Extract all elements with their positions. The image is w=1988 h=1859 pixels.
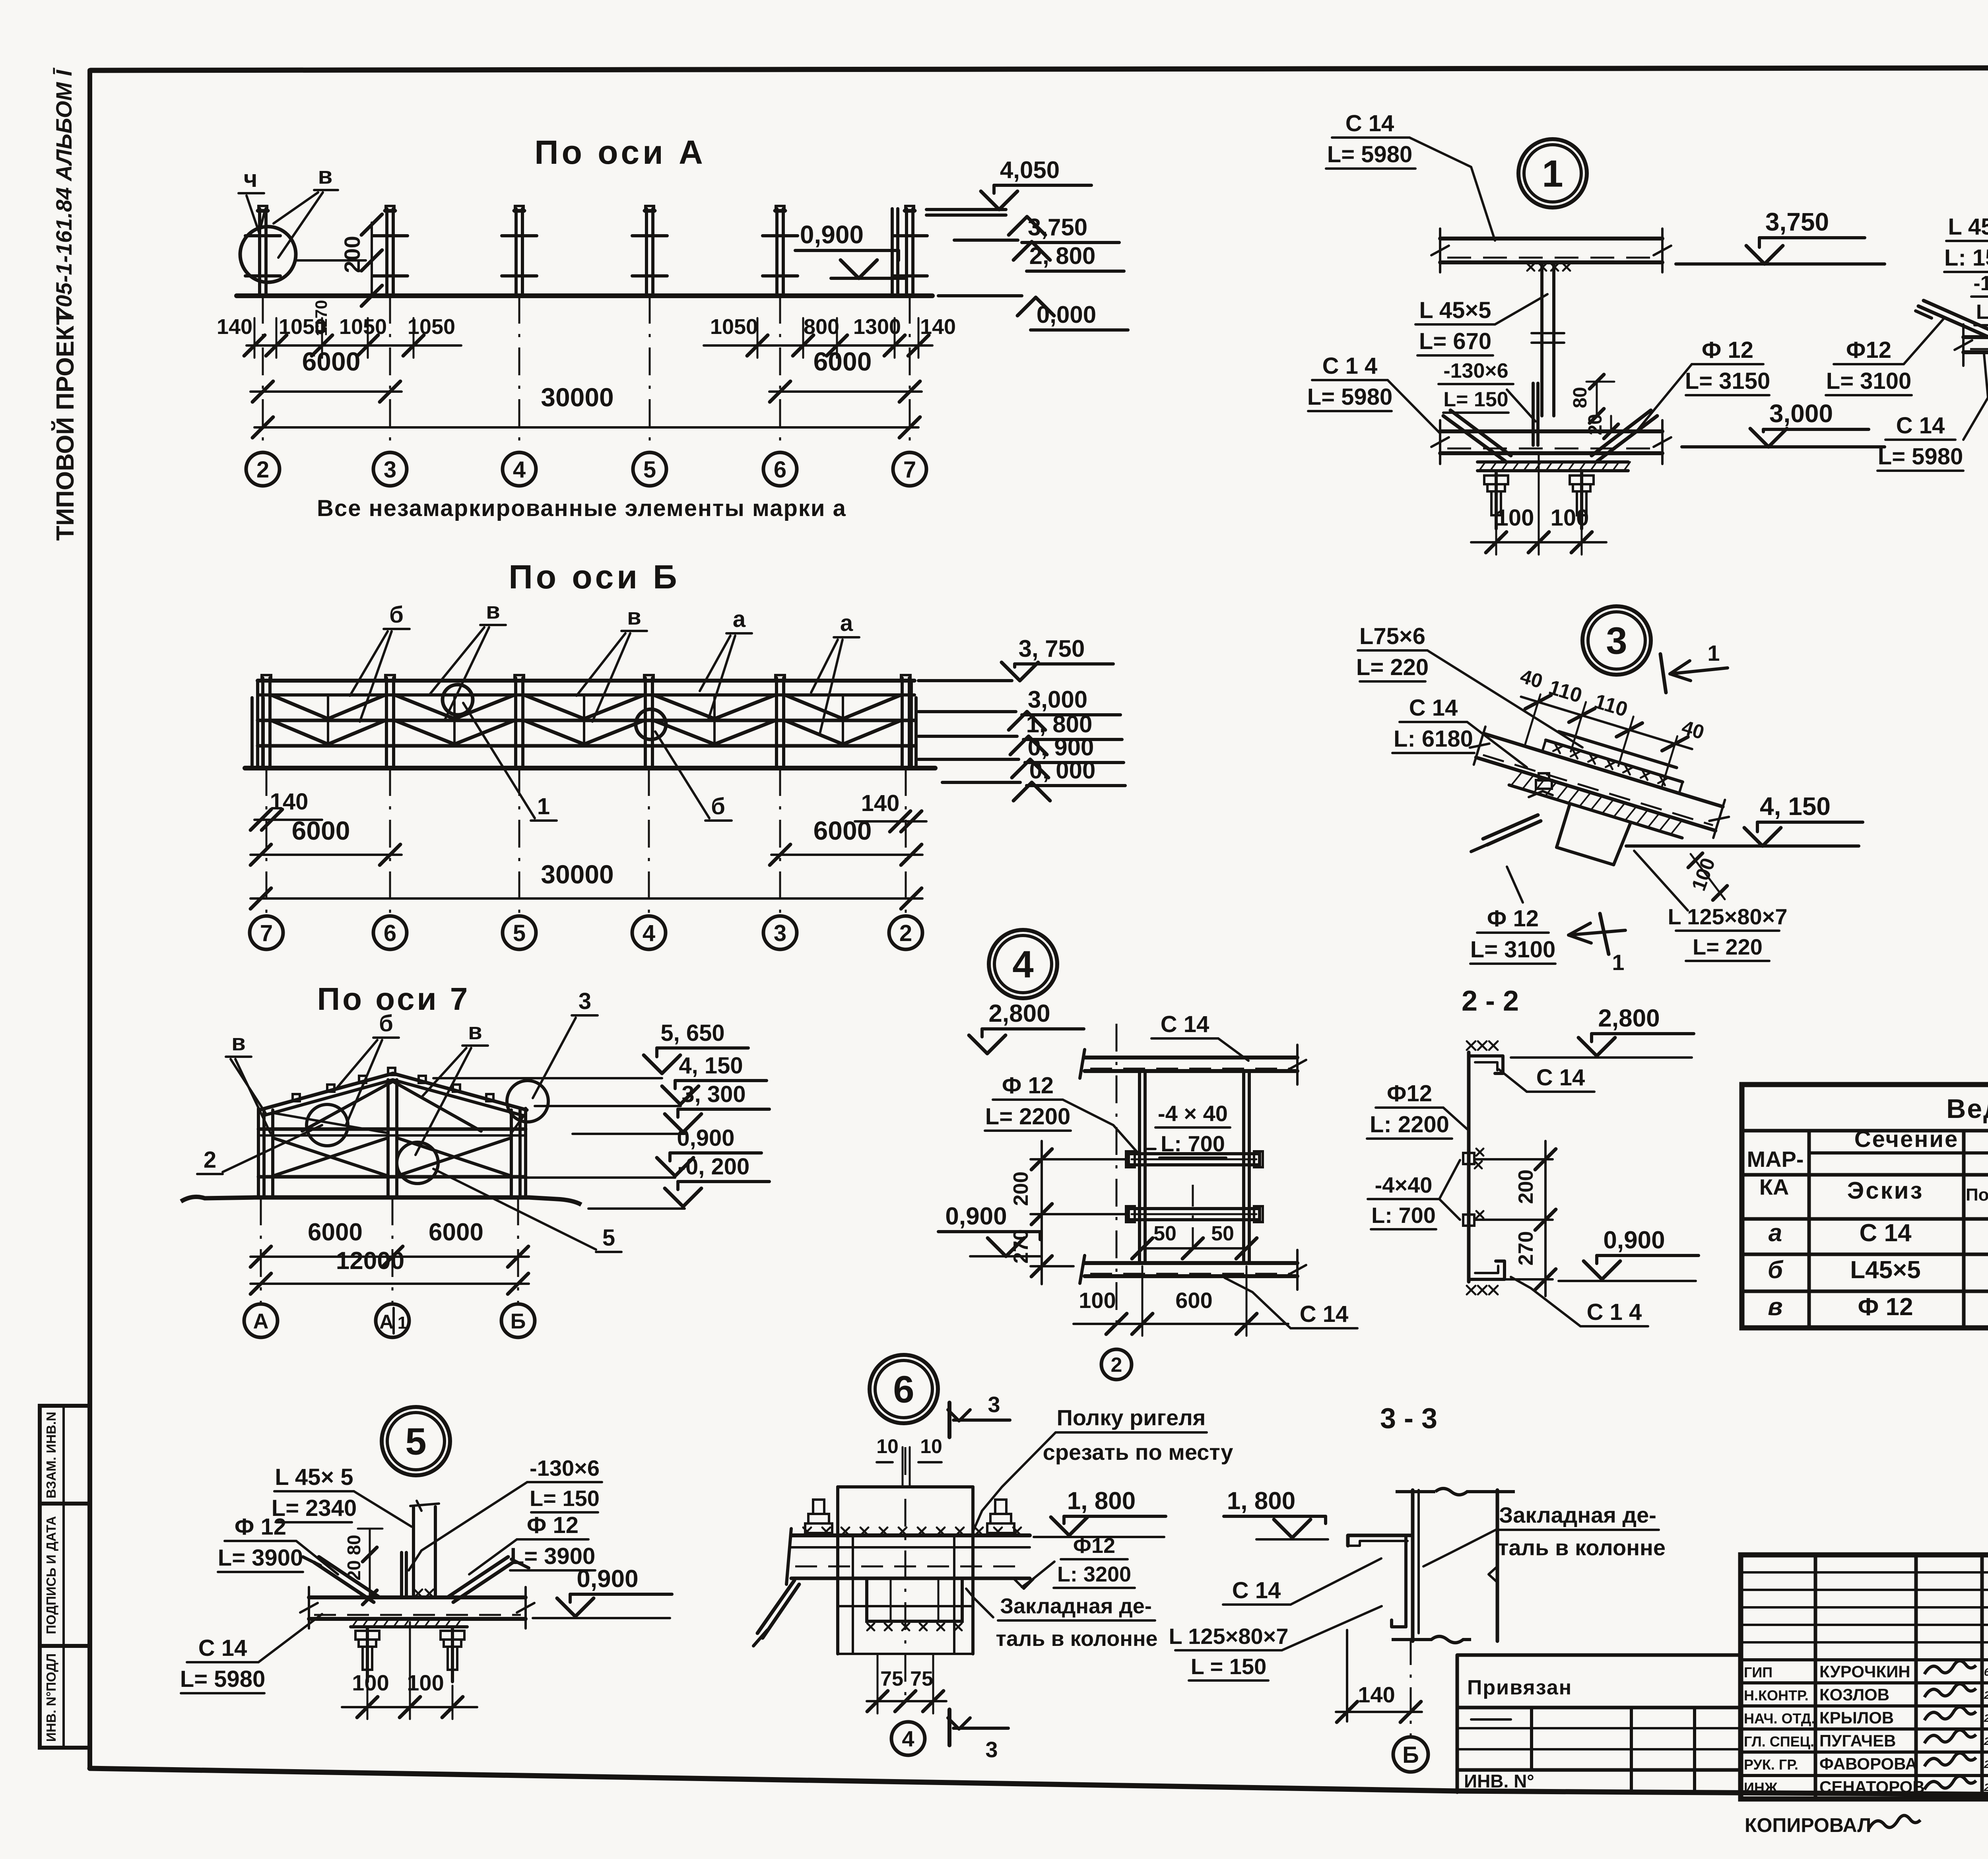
view 7 eave tie beam — [258, 1127, 526, 1131]
svg-text:L: 700: L: 700 — [1371, 1203, 1436, 1228]
svg-text:1050: 1050 — [339, 315, 387, 339]
svg-text:ПУГАЧЕВ: ПУГАЧЕВ — [1819, 1731, 1896, 1750]
svg-text:ГЛ. СПЕЦ.: ГЛ. СПЕЦ. — [1744, 1733, 1814, 1750]
svg-text:в: в — [318, 162, 333, 189]
svg-text:Полку ригеля: Полку ригеля — [1057, 1405, 1206, 1430]
svg-text:4, 150: 4, 150 — [1760, 792, 1831, 821]
svg-text:L75×6: L75×6 — [1359, 623, 1425, 649]
svg-text:С 1 4: С 1 4 — [1322, 353, 1378, 379]
view B post axis 3 — [775, 678, 778, 768]
svg-text:2: 2 — [204, 1147, 216, 1173]
view 7 purlin tabs — [293, 1094, 300, 1101]
svg-text:Ф 12: Ф 12 — [1002, 1073, 1054, 1098]
svg-text:270: 270 — [1514, 1231, 1538, 1266]
svg-text:140: 140 — [270, 789, 309, 815]
svg-text:С 14: С 14 — [1345, 111, 1394, 136]
svg-text:1, 800: 1, 800 — [1026, 711, 1093, 737]
svg-text:100: 100 — [407, 1670, 444, 1695]
svg-text:4, 150: 4, 150 — [679, 1053, 743, 1079]
svg-text:L: 2200: L: 2200 — [1370, 1112, 1449, 1137]
detail 2 brace rod left — [1918, 306, 1988, 358]
svg-text:3,000: 3,000 — [1028, 686, 1087, 713]
detail 6 section flag 3 top — [947, 1403, 951, 1437]
svg-text:5: 5 — [405, 1420, 426, 1463]
svg-text:б: б — [711, 794, 725, 819]
svg-text:Ведомость элементов: Ведомость элементов — [1946, 1094, 1988, 1124]
svg-text:20: 20 — [344, 1560, 364, 1580]
detail 4 axis centerline — [1116, 1024, 1118, 1324]
svg-text:4: 4 — [513, 457, 526, 483]
svg-text:-4×40: -4×40 — [1375, 1172, 1433, 1197]
view A fachwerk column axis 3 — [385, 209, 388, 296]
svg-text:С 14: С 14 — [1860, 1219, 1912, 1247]
svg-text:200: 200 — [340, 236, 365, 273]
svg-text:Ф12: Ф12 — [1073, 1534, 1115, 1558]
svg-text:80: 80 — [1570, 387, 1591, 408]
svg-text:Закладная де-: Закладная де- — [1499, 1502, 1656, 1527]
svg-text:0, 900: 0, 900 — [1028, 734, 1094, 761]
svg-text:2: 2 — [899, 920, 912, 946]
view B post axis 6 — [385, 678, 388, 768]
view B axis circles 7-2 — [250, 916, 283, 949]
svg-text:ГИП: ГИП — [1744, 1664, 1773, 1680]
svg-text:800: 800 — [804, 315, 839, 339]
svg-text:срезать по месту: срезать по месту — [1043, 1440, 1233, 1465]
svg-text:ч: ч — [244, 165, 258, 192]
detail 3 section flag 1 bottom — [1600, 914, 1609, 954]
view A level 4,050 — [926, 208, 1006, 211]
svg-text:а: а — [840, 610, 853, 636]
svg-text:28.2.84: 28.2.84 — [1984, 1689, 1988, 1701]
svg-text:Б: Б — [511, 1309, 526, 1333]
view A fachwerk column axis 6 — [775, 209, 779, 296]
svg-text:в: в — [231, 1030, 246, 1056]
svg-text:С 14: С 14 — [198, 1635, 247, 1661]
svg-text:100: 100 — [1551, 505, 1589, 531]
svg-text:50: 50 — [1211, 1222, 1234, 1245]
svg-text:-130×6: -130×6 — [1443, 359, 1508, 382]
svg-text:L 45×5: L 45×5 — [1948, 214, 1988, 240]
svg-text:L= 670: L= 670 — [1419, 328, 1491, 354]
svg-text:L= 3100: L= 3100 — [1826, 368, 1911, 394]
svg-text:Н.КОНТР.: Н.КОНТР. — [1744, 1687, 1809, 1704]
svg-text:2,800: 2,800 — [988, 1000, 1050, 1027]
detail 4 dim 200 270 — [1031, 1158, 1128, 1160]
svg-text:6000: 6000 — [302, 347, 361, 376]
svg-text:L= 150: L= 150 — [1443, 388, 1508, 411]
svg-text:L 45×5: L 45×5 — [1419, 297, 1491, 323]
svg-text:270: 270 — [1010, 1229, 1033, 1264]
svg-text:0, 000: 0, 000 — [1029, 757, 1096, 784]
svg-text:6000: 6000 — [292, 816, 350, 845]
svg-text:в: в — [486, 598, 500, 624]
detail 6 column box — [836, 1487, 839, 1654]
view B dim 6000 right — [771, 854, 922, 856]
view B ground line — [245, 766, 935, 770]
svg-text:С 14: С 14 — [1300, 1301, 1349, 1327]
detail 4 tie plates -4x40 — [1128, 1154, 1260, 1165]
svg-text:Сечение: Сечение — [1854, 1126, 1959, 1152]
view 7 brace diagonals — [273, 1138, 388, 1176]
view B dim 6000 left — [250, 854, 402, 856]
svg-text:30000: 30000 — [541, 860, 614, 889]
svg-text:7: 7 — [903, 457, 916, 483]
view 7 lower tie beam — [258, 1175, 526, 1179]
view B web diagonals — [271, 695, 328, 719]
view B lower chord — [258, 744, 914, 748]
view B dim 30000 — [250, 897, 922, 900]
svg-text:-130×6: -130×6 — [1973, 272, 1988, 295]
view 7 left column — [262, 1110, 266, 1197]
svg-text:3: 3 — [988, 1392, 1000, 1417]
svg-text:80: 80 — [344, 1535, 364, 1555]
section 2-2 bottom channel — [1469, 1261, 1505, 1279]
detail 1 brace rods — [1443, 416, 1505, 461]
svg-text:Ф 12: Ф 12 — [1702, 337, 1753, 363]
section 2-2 dim 200 270 — [1475, 1158, 1553, 1160]
detail 4 bottom beam C14 — [1085, 1261, 1297, 1265]
svg-text:3, 300: 3, 300 — [681, 1081, 745, 1107]
svg-text:6: 6 — [893, 1368, 914, 1411]
detail 3 inclined purlin assembly — [1449, 708, 1738, 893]
detail 5 anchor bolts — [366, 1628, 369, 1682]
detail 6 embedded plate — [867, 1578, 962, 1621]
view A dim 6000 left — [250, 390, 402, 393]
svg-text:Закладная де-: Закладная де- — [1000, 1594, 1152, 1618]
svg-text:а: а — [733, 606, 746, 632]
svg-text:0,900: 0,900 — [677, 1125, 734, 1151]
svg-text:3,750: 3,750 — [1765, 208, 1829, 236]
svg-text:L: 1500: L: 1500 — [1944, 245, 1988, 271]
svg-text:L= 3150: L= 3150 — [1685, 368, 1770, 394]
svg-text:L: 3200: L: 3200 — [1057, 1562, 1131, 1586]
sheet frame bottom border — [90, 1768, 1988, 1798]
svg-text:3,000: 3,000 — [1769, 399, 1833, 428]
detail 1 anchor bolts — [1495, 472, 1498, 529]
svg-text:3: 3 — [1606, 620, 1627, 662]
svg-text:Ф 12: Ф 12 — [235, 1514, 286, 1540]
svg-text:1050: 1050 — [710, 315, 758, 339]
svg-text:КА: КА — [1759, 1174, 1789, 1199]
section 2-2 gusset squares — [1463, 1153, 1474, 1164]
svg-text:140: 140 — [920, 315, 956, 339]
view 7 detail balloons on frame — [307, 1104, 348, 1146]
view 7 dim 6000 6000 — [250, 1256, 529, 1258]
svg-text:L 45× 5: L 45× 5 — [275, 1464, 353, 1490]
detail 1 level 3,000 — [1682, 445, 1885, 448]
svg-text:А: А — [379, 1311, 394, 1333]
svg-text:L= 5980: L= 5980 — [1307, 384, 1392, 410]
detail 6 bolts above beam — [805, 1523, 832, 1533]
svg-text:24.2.84: 24.2.84 — [1984, 1781, 1988, 1793]
svg-text:НАЧ. ОТД.: НАЧ. ОТД. — [1744, 1710, 1815, 1727]
svg-text:А: А — [253, 1309, 269, 1333]
svg-text:По оси А: По оси А — [534, 134, 706, 171]
view B top chord — [258, 679, 914, 683]
svg-text:2: 2 — [256, 457, 269, 483]
view 7 right column — [510, 1110, 513, 1197]
detail 4 axis circle 2 — [1101, 1349, 1132, 1380]
svg-text:100: 100 — [352, 1670, 389, 1695]
svg-text:С 14: С 14 — [1409, 695, 1458, 721]
view A detail balloon on column 2 — [240, 227, 296, 282]
svg-text:30000: 30000 — [541, 382, 614, 412]
view A ground line — [237, 293, 932, 298]
svg-text:б: б — [1768, 1256, 1784, 1284]
detail 3 rotated dims 40 110 110 40 — [1502, 665, 1707, 793]
svg-text:10: 10 — [876, 1435, 899, 1457]
view B post axis 5 — [514, 678, 517, 768]
svg-text:1, 800: 1, 800 — [1067, 1487, 1136, 1515]
svg-text:б: б — [379, 1011, 393, 1036]
svg-text:таль в колонне: таль в колонне — [1498, 1535, 1666, 1560]
view 7 dim 12000 — [250, 1283, 529, 1285]
svg-text:L= 5980: L= 5980 — [1327, 142, 1412, 167]
svg-text:а: а — [1769, 1219, 1782, 1247]
svg-text:5: 5 — [643, 457, 656, 483]
svg-text:МАР-: МАР- — [1747, 1147, 1804, 1172]
svg-text:С 14: С 14 — [1161, 1011, 1209, 1037]
detail 6 axis circle 4 — [891, 1722, 925, 1755]
section 2-2 column line — [1467, 1052, 1471, 1282]
detail balloon 4 — [989, 930, 1057, 998]
svg-text:L= 5980: L= 5980 — [180, 1666, 265, 1692]
view A axis extension lines — [262, 296, 264, 452]
svg-text:1: 1 — [537, 794, 550, 819]
svg-text:Ф12: Ф12 — [1387, 1081, 1432, 1106]
privyazan table — [1457, 1655, 1741, 1792]
svg-text:3: 3 — [774, 920, 786, 946]
svg-text:1, 800: 1, 800 — [1227, 1487, 1295, 1515]
svg-text:3: 3 — [384, 457, 396, 483]
view A dim 30000 — [254, 426, 918, 429]
svg-text:КОПИРОВАЛ: КОПИРОВАЛ — [1745, 1814, 1871, 1836]
vedomost table frame — [1742, 1085, 1988, 1328]
svg-text:Эскиз: Эскиз — [1847, 1177, 1924, 1204]
svg-text:5: 5 — [602, 1225, 615, 1251]
detail balloon 6 — [870, 1355, 938, 1423]
svg-text:С 1 4: С 1 4 — [1587, 1299, 1642, 1325]
svg-text:С 14: С 14 — [1232, 1578, 1281, 1603]
svg-text:L45×5: L45×5 — [1850, 1256, 1921, 1284]
detail balloon 1 — [1518, 139, 1587, 208]
svg-text:в: в — [1768, 1293, 1782, 1321]
detail 1 bottom beam C14 — [1440, 429, 1662, 433]
svg-text:L= 5980: L= 5980 — [1878, 444, 1963, 470]
view A level 2,800 — [954, 239, 1018, 242]
svg-text:ИНВ. N°: ИНВ. N° — [1464, 1771, 1534, 1791]
svg-text:5: 5 — [513, 920, 526, 946]
left stamp strip box — [40, 1406, 90, 1748]
svg-text:Б: Б — [1402, 1742, 1419, 1768]
svg-text:200: 200 — [1010, 1172, 1033, 1206]
view 7 axis extension lines — [260, 1197, 262, 1304]
view B detail balloon upper — [443, 685, 473, 715]
svg-text:С 14: С 14 — [1896, 413, 1945, 439]
detail 3 section flag 1 top — [1660, 654, 1666, 693]
svg-text:СЕНАТОРОВ: СЕНАТОРОВ — [1819, 1777, 1925, 1796]
svg-text:5, 650: 5, 650 — [660, 1020, 724, 1046]
svg-text:По оси Б: По оси Б — [509, 558, 680, 596]
svg-text:6000: 6000 — [308, 1219, 363, 1246]
section 3-3 axis circle B — [1393, 1737, 1428, 1772]
detail 6 section flag 3 bottom — [947, 1710, 951, 1745]
detail 4 top beam C14 — [1085, 1056, 1297, 1060]
view B axis extension lines — [266, 768, 268, 916]
detail 1 base plate hatched — [1477, 460, 1628, 464]
svg-text:4: 4 — [643, 920, 655, 946]
svg-text:7: 7 — [260, 920, 273, 946]
svg-text:6000: 6000 — [429, 1219, 483, 1246]
svg-text:-130×6: -130×6 — [530, 1455, 600, 1481]
svg-text:6000: 6000 — [813, 816, 872, 845]
svg-text:3 - 3: 3 - 3 — [1380, 1403, 1437, 1434]
view A fachwerk column axis 5 — [645, 209, 648, 296]
svg-text:100: 100 — [1079, 1288, 1116, 1313]
svg-text:3: 3 — [579, 988, 591, 1014]
svg-text:4: 4 — [902, 1726, 914, 1751]
svg-text:2,800: 2,800 — [1598, 1005, 1660, 1032]
svg-text:L 125×80×7: L 125×80×7 — [1169, 1624, 1288, 1649]
svg-text:L= 220: L= 220 — [1693, 934, 1763, 959]
svg-text:6: 6 — [774, 457, 786, 483]
svg-text:2 - 2: 2 - 2 — [1462, 985, 1519, 1017]
svg-text:ФАВОРОВА: ФАВОРОВА — [1819, 1754, 1917, 1773]
vedomost header lines — [1809, 1151, 1988, 1155]
detail 6 beam ригель — [791, 1533, 1030, 1537]
detail 6 weld x marks on beam — [803, 1527, 811, 1535]
svg-text:L = 150: L = 150 — [1191, 1654, 1266, 1679]
svg-text:1: 1 — [1612, 950, 1624, 975]
view 7 axis circles A A|1 B — [244, 1304, 278, 1337]
view B detail balloon lower — [636, 709, 666, 739]
svg-text:140: 140 — [861, 790, 900, 816]
svg-text:ПОДПИСЬ И ДАТА: ПОДПИСЬ И ДАТА — [44, 1516, 58, 1634]
svg-text:L: 6180: L: 6180 — [1394, 726, 1473, 752]
section 2-2 top channel — [1469, 1056, 1503, 1073]
section 3-3 bracket — [1348, 1535, 1413, 1546]
detail 3 diagonal rod — [1487, 821, 1541, 845]
view A axis circles 2-7 — [246, 452, 280, 486]
svg-text:705-1-161.84 АЛЬБОМ Ī: 705-1-161.84 АЛЬБОМ Ī — [51, 67, 76, 320]
svg-text:По оси 7: По оси 7 — [317, 981, 470, 1017]
detail 5 brace rods — [314, 1562, 374, 1602]
svg-text:б: б — [389, 602, 404, 628]
detail 5 beam C14 — [309, 1595, 526, 1599]
svg-text:ИНВ. N°ПОДЛ: ИНВ. N°ПОДЛ — [44, 1653, 58, 1742]
svg-text:3: 3 — [985, 1737, 998, 1762]
view A dim 6000 right — [769, 390, 922, 393]
svg-text:L= 3100: L= 3100 — [1470, 937, 1555, 962]
svg-text:0,900: 0,900 — [577, 1565, 638, 1593]
svg-text:60384: 60384 — [1984, 1666, 1988, 1678]
title block outer — [1741, 1555, 1988, 1799]
svg-text:-0, 200: -0, 200 — [678, 1154, 750, 1180]
svg-text:L= 3900: L= 3900 — [218, 1545, 303, 1571]
svg-text:100: 100 — [1496, 505, 1534, 531]
section 2-2 weld xxx top — [1467, 1041, 1475, 1050]
svg-text:Привязан: Привязан — [1467, 1676, 1572, 1699]
svg-text:Ф 12: Ф 12 — [527, 1512, 579, 1538]
svg-text:50: 50 — [1153, 1222, 1176, 1245]
svg-text:ИНЖ.: ИНЖ. — [1744, 1779, 1781, 1796]
svg-text:L= 2200: L= 2200 — [985, 1104, 1070, 1129]
svg-text:КРЫЛОВ: КРЫЛОВ — [1819, 1708, 1894, 1727]
view B post axis 2 — [901, 678, 904, 768]
svg-text:ВЗАМ. ИНВ.N: ВЗАМ. ИНВ.N — [44, 1412, 58, 1498]
detail 5 post stub — [412, 1507, 415, 1595]
svg-text:29.2.84: 29.2.84 — [1984, 1735, 1988, 1747]
detail balloon 5 — [382, 1407, 450, 1475]
svg-text:200: 200 — [1514, 1170, 1538, 1204]
sheet frame left border — [87, 70, 92, 1768]
detail 2 beam C14 — [1963, 335, 1988, 339]
svg-text:1: 1 — [1707, 640, 1720, 666]
svg-text:L: 150: L: 150 — [1976, 301, 1988, 324]
section 2-2 weld xxx bottom — [1467, 1286, 1475, 1294]
svg-text:75: 75 — [910, 1667, 933, 1690]
svg-text:4,050: 4,050 — [1000, 157, 1060, 183]
svg-text:Все незамаркированные элементы: Все незамаркированные элементы марки а — [317, 495, 846, 521]
svg-text:в: в — [468, 1019, 482, 1044]
view A small dims row — [247, 344, 461, 347]
detail 3 bolt group — [1529, 791, 1553, 797]
svg-text:С 14: С 14 — [1536, 1065, 1585, 1091]
view 7 ground wavy line — [181, 1197, 581, 1205]
svg-text:L= 220: L= 220 — [1356, 654, 1429, 680]
svg-text:2: 2 — [1111, 1354, 1122, 1377]
svg-text:0,900: 0,900 — [1603, 1226, 1665, 1254]
svg-text:в: в — [627, 604, 641, 630]
svg-text:600: 600 — [1175, 1288, 1212, 1313]
svg-text:L: 700: L: 700 — [1161, 1131, 1225, 1156]
detail 5 plate -130x6 — [405, 1552, 408, 1596]
detail 6 centerline — [905, 1447, 907, 1706]
view B middle chord — [258, 719, 914, 722]
svg-text:1: 1 — [398, 1313, 407, 1333]
svg-text:-4 × 40: -4 × 40 — [1158, 1101, 1228, 1126]
svg-text:ТИПОВОЙ ПРОЕКТ: ТИПОВОЙ ПРОЕКТ — [51, 310, 79, 541]
detail 6 diagonal rod — [763, 1584, 799, 1638]
detail 5 weld marks — [414, 1589, 422, 1597]
detail 1 top beam C14 — [1440, 237, 1662, 241]
detail 1 center post L45x5 — [1540, 264, 1543, 416]
title block verticals left part — [1814, 1555, 1817, 1799]
view A level 0,000 — [938, 294, 1022, 297]
svg-text:140: 140 — [217, 315, 252, 339]
section 3-3 dashed axis and dim 140 — [1410, 1641, 1412, 1737]
sheet frame top border — [91, 67, 1988, 70]
svg-text:12000: 12000 — [336, 1247, 404, 1275]
svg-text:1050: 1050 — [408, 315, 455, 339]
view A fachwerk column axis 2 — [258, 209, 261, 296]
view 7 middle column — [386, 1080, 390, 1197]
detail balloon 3 — [1582, 606, 1651, 675]
detail 4 vertical rods F12 — [1138, 1071, 1141, 1263]
svg-text:0,900: 0,900 — [945, 1203, 1007, 1230]
svg-text:L= 150: L= 150 — [530, 1486, 600, 1511]
svg-text:1050: 1050 — [279, 315, 326, 339]
svg-text:6000: 6000 — [813, 347, 872, 376]
title block name rows — [1741, 1658, 1988, 1661]
svg-text:4: 4 — [1012, 943, 1033, 986]
svg-text:РУК. ГР.: РУК. ГР. — [1744, 1756, 1798, 1773]
svg-text:Ф12: Ф12 — [1846, 337, 1891, 363]
svg-text:КУРОЧКИН: КУРОЧКИН — [1819, 1662, 1910, 1681]
svg-text:таль в колонне: таль в колонне — [996, 1627, 1158, 1651]
view B post axis 4 — [644, 678, 647, 768]
detail 5 base plate hatched — [351, 1625, 467, 1628]
